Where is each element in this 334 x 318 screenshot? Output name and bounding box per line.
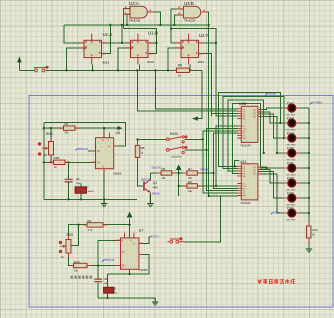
wire origin arrow shaft <box>18 62 20 70</box>
wire upper555 left rail <box>43 122 45 199</box>
svg-text:U3:A: U3:A <box>129 1 139 6</box>
node junction 178.7,185.9 <box>178 185 180 187</box>
wire U1:B CLK drop <box>118 48 131 71</box>
node net labels mid <box>141 165 208 195</box>
svg-text:R10: R10 <box>74 260 80 264</box>
svg-text:R7: R7 <box>188 167 192 171</box>
svg-text:Q1: Q1 <box>153 181 157 185</box>
node junction 156.6,42.9 <box>156 42 158 44</box>
node net label HNOA <box>265 92 276 96</box>
svg-text:D20: D20 <box>287 146 294 150</box>
wire vcc arrow stem <box>178 170 180 185</box>
svg-text:RV6: RV6 <box>67 233 74 237</box>
ground origin arrow top-left <box>17 57 22 63</box>
node junction 118,70.4 <box>117 69 119 71</box>
svg-text:U2:A: U2:A <box>199 33 209 38</box>
node gray note text <box>71 276 93 279</box>
resistor R5 <box>177 68 190 72</box>
wire R2B row <box>44 161 96 163</box>
svg-text:D21: D21 <box>287 161 294 165</box>
wire R6h row <box>150 172 187 174</box>
wire gate1 output drop <box>148 12 160 25</box>
svg-text:U5B: U5B <box>239 102 247 106</box>
wire upper555 pin4 stub <box>103 128 105 138</box>
button SW1 top-left <box>34 66 49 72</box>
wire lower555 gnd stub <box>129 269 131 274</box>
node net label right bus <box>310 101 323 105</box>
node junction 266.7,168 <box>266 167 268 169</box>
node junction 208.7,196 <box>208 195 210 197</box>
node junction 66.4,70.4 <box>65 69 67 71</box>
resistor R4 horizontal <box>87 223 103 227</box>
wire upper555 r6 rail <box>44 127 116 129</box>
node junction 43.8,162.3 <box>43 161 45 163</box>
node junction 168,70.4 <box>167 69 169 71</box>
resistor R6h <box>161 171 172 175</box>
wire drop x137 to counter p2 <box>137 70 237 111</box>
wire button2 to counter <box>185 196 221 242</box>
flip-flop U1:B 4013 <box>126 34 154 65</box>
svg-text:74HC08: 74HC08 <box>184 19 195 23</box>
wire U51 out4 to D24 <box>258 174 287 213</box>
node junction 107.5,297.9 <box>106 297 108 299</box>
wire wrap D <box>233 104 287 174</box>
node junction 137.5,139.4 <box>136 138 138 140</box>
node junction 160.4,24.9 <box>159 24 161 26</box>
node junction 178.7,173 <box>178 172 180 174</box>
LED D20 <box>284 148 301 157</box>
wire Q1 emitter drop <box>149 193 151 203</box>
node junction 155.5,70.4 <box>154 69 156 71</box>
wire wrap C <box>228 100 264 171</box>
node junction 309,198 <box>308 197 310 199</box>
wire lower555 vcc stem <box>129 219 131 238</box>
flip-flop U1:A 4013 <box>79 34 106 65</box>
svg-text:R16: R16 <box>312 228 318 232</box>
svg-text:U3:B: U3:B <box>184 1 194 6</box>
wire R11 to ground <box>308 238 310 249</box>
svg-text:MR: MR <box>242 196 246 198</box>
node junction 81,199.3 <box>80 198 82 200</box>
svg-text:Q: Q <box>133 242 135 245</box>
node junction 68.6,199.3 <box>68 198 70 200</box>
wire RV5 top <box>50 128 52 141</box>
wire C6 branch <box>68 162 70 199</box>
op-amp U3:A and gate <box>124 6 154 18</box>
node junction 43.8,128.1 <box>43 127 45 129</box>
power arrow right of U5 <box>116 126 123 130</box>
op-amp U3:B and gate <box>177 6 207 18</box>
wire U51 out2 to D22 <box>258 169 287 183</box>
svg-text:10km: 10km <box>273 211 281 215</box>
wire U1:A Q to U1:B D <box>102 25 131 43</box>
node junction 309,138 <box>308 137 310 139</box>
node junction 78.6,224.7 <box>78 224 80 226</box>
node junction 68.6,162.3 <box>68 161 70 163</box>
svg-text:NE555: NE555 <box>140 268 148 272</box>
node net label near D24 <box>271 211 281 215</box>
resistor R7h <box>187 171 197 175</box>
ground under U5 <box>101 199 107 207</box>
node junction 206.6,149.9 <box>206 149 208 151</box>
svg-text:R2B: R2B <box>54 156 60 160</box>
svg-text:D17: D17 <box>287 101 294 105</box>
wire SW3 row2 to counters <box>207 128 238 190</box>
node junction 129.6,224.7 <box>129 224 131 226</box>
node junction 216,42.9 <box>215 42 217 44</box>
wire U2:A Qbar drop <box>199 54 212 117</box>
IC U51 74LS194 <box>237 164 262 200</box>
wire lower555 top rail <box>69 224 130 226</box>
node net label 555CN1 <box>76 147 89 151</box>
wire bottom rail upper cell <box>44 198 137 200</box>
LED D23 <box>284 193 301 202</box>
wire upper555 vcc rail <box>44 122 126 146</box>
node junction 309,213 <box>308 212 310 214</box>
node junction 51,128.1 <box>50 127 52 129</box>
wire main reset rail y70 <box>19 69 202 71</box>
wire U51 out3 to D23 <box>258 172 287 198</box>
svg-text:4.7k: 4.7k <box>88 229 93 232</box>
svg-text:R: R <box>102 139 104 142</box>
node junction 121.9,24.9 <box>121 24 123 26</box>
node junction 92.7,70.4 <box>92 69 94 71</box>
switch SW3 dpdt <box>166 135 187 153</box>
potentiometer RV6 <box>59 240 71 254</box>
node junction 137.3,70.4 <box>136 69 138 71</box>
wire U2:A CLK drop <box>168 48 181 71</box>
node net label OUT <box>149 234 159 238</box>
capacitor C9 <box>104 287 115 293</box>
wire lower counter bottom pin row <box>209 195 238 197</box>
node junction 129.6,274 <box>129 273 131 275</box>
svg-text:LED-RED: LED-RED <box>286 220 296 222</box>
wire wrap A <box>219 93 281 167</box>
svg-text:R9: R9 <box>188 180 192 184</box>
node junction 98.2,265.5 <box>97 264 99 266</box>
wire SW3 row2 <box>185 149 207 151</box>
wire RV6 wiper riser <box>72 225 79 246</box>
svg-text:R6: R6 <box>162 167 166 171</box>
svg-text:4013: 4013 <box>147 60 154 64</box>
power arrow lower 555 <box>127 212 133 218</box>
svg-text:TR: TR <box>97 150 100 153</box>
node junction 110.3,24.9 <box>109 24 111 26</box>
svg-text:D22: D22 <box>287 176 294 180</box>
power arrow mid <box>176 165 182 171</box>
node junction 174.3,24.9 <box>173 24 175 26</box>
svg-text:NPN: NPN <box>153 187 158 190</box>
svg-text:4013: 4013 <box>198 60 205 64</box>
resistor R11 <box>307 226 312 238</box>
svg-text:RV5: RV5 <box>46 132 53 136</box>
node resistor lead stubs <box>50 70 310 265</box>
svg-text:G: G <box>122 266 124 269</box>
svg-text:D18: D18 <box>287 116 294 120</box>
svg-text:R: R <box>122 240 124 243</box>
node junction 280.3,123 <box>279 122 281 124</box>
wire line2a to U1:B Q <box>124 29 157 54</box>
wire RV5 bottom <box>50 155 52 162</box>
LED D22 <box>284 178 301 187</box>
node subsheet border <box>29 96 333 308</box>
resistor R10 <box>74 263 88 267</box>
wire C8 column <box>97 240 99 298</box>
wire R4v to Q1 base <box>138 139 144 186</box>
svg-text:555CN1: 555CN1 <box>78 147 89 151</box>
wire U1:A CLK drop <box>66 48 84 71</box>
wire gate2 output drop <box>203 12 209 196</box>
svg-text:C7: C7 <box>85 186 89 190</box>
LED D17 <box>284 103 301 112</box>
node junction 309,123 <box>308 122 310 124</box>
wire U51 out1 to D21 <box>258 167 267 168</box>
svg-text:U5: U5 <box>116 131 121 135</box>
svg-text:C8: C8 <box>104 277 108 281</box>
svg-text:SR: SR <box>242 176 245 178</box>
ground below R11 <box>306 249 312 253</box>
svg-text:R5: R5 <box>178 64 182 68</box>
node junction 216,185.9 <box>215 185 217 187</box>
svg-text:U7: U7 <box>139 229 144 233</box>
wire bottom rail lower cell <box>98 298 155 300</box>
wire lower hook <box>235 161 239 167</box>
svg-text:MR: MR <box>242 138 246 140</box>
svg-text:D24: D24 <box>287 206 294 210</box>
node left arrow flag <box>192 116 198 120</box>
svg-text:D19: D19 <box>287 131 294 135</box>
wire C9 stubs <box>107 274 109 298</box>
node junction 309,168 <box>308 167 310 169</box>
wire counter p3 from Qbar <box>212 113 238 115</box>
wire feedback bus y24.9 <box>64 24 209 26</box>
wire U5B out3 to D19 <box>258 114 287 138</box>
wire pin1 row lower555 <box>98 239 120 241</box>
svg-text:HNOA: HNOA <box>268 92 277 96</box>
resistor R2B <box>54 160 66 164</box>
wire counter p4 from Q <box>216 43 237 116</box>
svg-text:SW-DPDT: SW-DPDT <box>172 156 183 158</box>
wire U5B out2 to D18 <box>258 112 287 123</box>
svg-text:SR: SR <box>242 118 245 120</box>
svg-text:555CN2: 555CN2 <box>104 258 115 262</box>
svg-text:555CN1: 555CN1 <box>152 165 163 169</box>
svg-text:R6: R6 <box>65 122 69 126</box>
node junction 121.9,42.9 <box>121 42 123 44</box>
wire drop x155.5 to counter p1 <box>156 70 238 108</box>
svg-text:NE555: NE555 <box>113 171 121 175</box>
IC U5B 74LS194 <box>237 106 262 142</box>
LED D24 <box>284 208 301 217</box>
wire U2:A D <box>171 29 181 43</box>
LED D19 <box>284 133 301 142</box>
wire Q1 collector riser <box>149 173 151 179</box>
svg-text:74LS194: 74LS194 <box>240 144 251 148</box>
wire gate1 input risers <box>124 9 130 29</box>
ground bottom <box>152 298 158 306</box>
svg-text:OUT1: OUT1 <box>152 234 160 238</box>
ground under Q1 <box>147 194 153 207</box>
transistor Q1 <box>144 178 150 194</box>
svg-text:10nF: 10nF <box>76 183 82 185</box>
svg-text:100uF: 100uF <box>88 191 95 193</box>
svg-text:74LS194: 74LS194 <box>240 201 251 205</box>
svg-text:D23: D23 <box>287 191 294 195</box>
svg-text:G: G <box>102 166 104 169</box>
node junction 309,153 <box>308 152 310 154</box>
svg-text:R8: R8 <box>141 146 145 150</box>
node junction 104.1,128.1 <box>103 127 105 129</box>
wire SW3 row1 <box>137 138 203 140</box>
node junction 202.8,139.4 <box>202 138 204 140</box>
potentiometer RV5 <box>38 142 54 156</box>
svg-text:U51: U51 <box>240 160 247 164</box>
svg-text:PRNE: PRNE <box>201 168 209 172</box>
node junction 309,183 <box>308 182 310 184</box>
svg-text:C6: C6 <box>76 177 80 181</box>
svg-text:U1:A: U1:A <box>103 32 113 37</box>
wire SW3 row1 to counters <box>203 131 238 193</box>
op-amp U7 NE555 <box>116 233 143 270</box>
op-amp U5 NE555 <box>91 133 118 174</box>
capacitor C7 <box>75 187 87 194</box>
svg-text:555CN2: 555CN2 <box>141 178 152 182</box>
flip-flop U2:A 4013 <box>176 34 204 65</box>
svg-text:C9: C9 <box>112 287 116 291</box>
button SW4 bottom <box>168 237 185 243</box>
node junction 276.9,153 <box>276 152 278 154</box>
capacitor C8 <box>94 279 102 282</box>
node junction 234.7,166.3 <box>234 165 236 167</box>
node title chinese red text <box>258 279 295 284</box>
wire R7 row to counters <box>197 133 237 188</box>
svg-text:SRNE: SRNE <box>152 192 160 196</box>
resistor R8 vertical <box>135 145 140 157</box>
LED D18 <box>284 118 301 127</box>
svg-text:R4: R4 <box>88 219 92 223</box>
node junction 263.7,153 <box>263 152 265 154</box>
wire R8 row to counters <box>197 126 237 186</box>
svg-text:CV: CV <box>122 251 126 254</box>
node junction 213.5,173 <box>212 172 214 174</box>
wire lower555 pin5 <box>108 255 149 275</box>
wire R10 to pin2 <box>87 265 121 267</box>
wire RV6 left rail <box>68 225 70 240</box>
wire U1:A D <box>64 25 84 43</box>
wire lower555 out <box>139 237 149 244</box>
wire line2b to U2:A Q <box>171 29 216 43</box>
svg-text:SYRBU: SYRBU <box>312 101 322 105</box>
wire LED right stubs <box>297 108 309 213</box>
node junction 127.2,24.9 <box>126 24 128 26</box>
wire left arrow flag <box>198 70 202 118</box>
node junction 283.8,138 <box>283 137 285 139</box>
wire C7 stubs <box>80 184 82 200</box>
wire gate2 input risers <box>171 9 183 29</box>
wire FF reset stubs to rail <box>93 65 190 71</box>
node junction 171,28.6 <box>170 28 172 30</box>
svg-text:74HC08: 74HC08 <box>129 19 140 23</box>
node net label 555CN2 <box>102 258 115 262</box>
resistor R6 <box>64 126 76 130</box>
node junction 51,162.3 <box>50 161 52 163</box>
resistor R8h <box>187 184 197 188</box>
wire U1:A Qbar riser <box>102 25 111 54</box>
node junction 190,70.4 <box>189 69 191 71</box>
wire wrap B <box>223 96 284 168</box>
node junction 208.7,24.9 <box>208 24 210 26</box>
node junction 104.1,199.3 <box>103 198 105 200</box>
node gate pin marks <box>125 6 205 14</box>
capacitor C6 <box>65 179 73 182</box>
wire U5B out1 to D17 <box>258 108 287 109</box>
node FF pin marks <box>85 41 197 56</box>
svg-text:10uF: 10uF <box>112 292 118 294</box>
svg-text:4013: 4013 <box>103 61 110 65</box>
svg-text:U1:B: U1:B <box>148 30 158 35</box>
wire LED right bus <box>308 108 310 228</box>
svg-text:Q: Q <box>108 145 110 148</box>
svg-text:TH: TH <box>97 162 100 165</box>
wire upper555 pin2 stub <box>88 150 96 152</box>
LED D21 <box>284 163 301 172</box>
wire R8h left <box>179 186 187 196</box>
wire U5B out4 to D20 <box>258 116 287 153</box>
svg-text:SW3: SW3 <box>170 132 178 136</box>
wire RV6 bottom to R10 <box>69 253 74 266</box>
wire upper555 gnd drop <box>103 169 105 200</box>
